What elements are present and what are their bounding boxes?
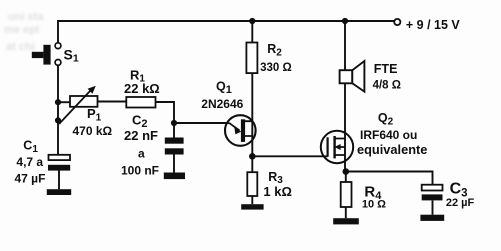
svg-text:at chi: at chi — [6, 41, 35, 53]
svg-text:10 Ω: 10 Ω — [362, 199, 386, 211]
svg-text:330 Ω: 330 Ω — [260, 62, 292, 74]
svg-text:22 nF: 22 nF — [124, 128, 158, 143]
svg-text:2N2646: 2N2646 — [201, 97, 243, 111]
svg-text:1 kΩ: 1 kΩ — [263, 184, 292, 199]
svg-text:FTE: FTE — [374, 62, 398, 76]
svg-text:Q1: Q1 — [216, 80, 232, 96]
svg-text:47 µF: 47 µF — [15, 172, 46, 186]
svg-text:uni sta: uni sta — [8, 11, 44, 23]
svg-text:S1: S1 — [64, 46, 79, 64]
svg-text:me ept: me ept — [4, 24, 40, 36]
svg-text:a: a — [138, 147, 145, 161]
svg-text:C1: C1 — [23, 139, 38, 155]
svg-text:IRF640 ou: IRF640 ou — [360, 128, 417, 142]
svg-text:100 nF: 100 nF — [121, 164, 159, 178]
svg-text:R2: R2 — [267, 42, 282, 58]
svg-text:4,7 a: 4,7 a — [16, 155, 43, 169]
svg-text:equivalente: equivalente — [357, 142, 427, 157]
svg-text:22 µF: 22 µF — [446, 197, 475, 209]
svg-text:P1: P1 — [87, 106, 102, 124]
svg-text:4/8 Ω: 4/8 Ω — [373, 80, 401, 92]
svg-text:470 kΩ: 470 kΩ — [73, 124, 113, 138]
svg-text:+ 9 / 15 V: + 9 / 15 V — [406, 18, 461, 32]
svg-text:22 kΩ: 22 kΩ — [124, 81, 160, 96]
svg-text:Q2: Q2 — [378, 111, 394, 127]
